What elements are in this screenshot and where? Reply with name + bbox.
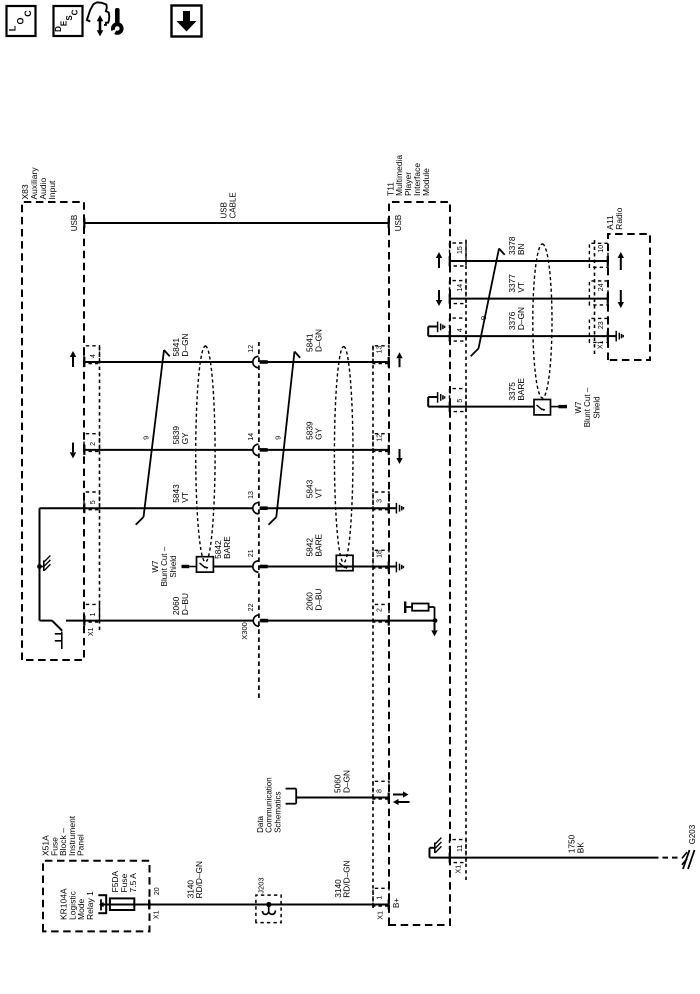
svg-text:D–BU: D–BU xyxy=(180,593,190,615)
svg-text:D–GN: D–GN xyxy=(342,770,352,793)
svg-text:12: 12 xyxy=(248,345,255,353)
svg-text:22: 22 xyxy=(248,603,255,611)
svg-text:2: 2 xyxy=(90,442,97,446)
svg-text:VT: VT xyxy=(180,492,190,503)
svg-text:VT: VT xyxy=(516,282,526,293)
svg-text:13: 13 xyxy=(377,346,384,354)
svg-text:X1: X1 xyxy=(455,865,462,874)
svg-text:USB: USB xyxy=(70,215,79,231)
svg-text:5: 5 xyxy=(90,500,97,504)
svg-text:W7: W7 xyxy=(574,401,583,414)
svg-text:1: 1 xyxy=(377,896,384,900)
svg-text:USB: USB xyxy=(394,215,403,231)
svg-text:10: 10 xyxy=(598,245,605,253)
svg-text:Panel: Panel xyxy=(76,834,86,856)
svg-text:20: 20 xyxy=(154,887,161,895)
svg-text:18: 18 xyxy=(377,550,384,558)
svg-text:3: 3 xyxy=(377,499,384,503)
svg-text:1: 1 xyxy=(90,612,97,616)
svg-text:X1: X1 xyxy=(377,911,384,920)
svg-text:Shield: Shield xyxy=(592,396,601,418)
svg-text:Relay 1: Relay 1 xyxy=(85,891,95,920)
svg-text:J203: J203 xyxy=(256,877,265,893)
svg-text:9: 9 xyxy=(273,436,282,440)
svg-text:13: 13 xyxy=(248,491,255,499)
svg-text:8: 8 xyxy=(377,789,384,793)
svg-text:D–GN: D–GN xyxy=(516,307,526,330)
svg-text:RD/D–GN: RD/D–GN xyxy=(342,860,352,897)
svg-text:9: 9 xyxy=(141,436,150,440)
svg-text:RD/D–GN: RD/D–GN xyxy=(194,861,204,898)
svg-text:Input: Input xyxy=(47,180,57,200)
svg-text:Radio: Radio xyxy=(614,207,624,229)
svg-text:BN: BN xyxy=(516,243,526,255)
svg-text:Blunt Cut –: Blunt Cut – xyxy=(583,387,592,427)
svg-text:Blunt Cut –: Blunt Cut – xyxy=(160,546,169,586)
svg-text:D–BU: D–BU xyxy=(313,588,323,610)
svg-text:Shield: Shield xyxy=(169,555,178,577)
svg-text:23: 23 xyxy=(598,321,605,329)
svg-text:2: 2 xyxy=(377,608,384,612)
svg-text:11: 11 xyxy=(457,845,464,852)
svg-text:X300: X300 xyxy=(240,622,249,640)
svg-text:14: 14 xyxy=(248,433,255,441)
svg-text:Module: Module xyxy=(421,168,431,196)
svg-text:G203: G203 xyxy=(688,824,697,844)
svg-text:21: 21 xyxy=(248,549,255,557)
svg-text:BARE: BARE xyxy=(313,533,323,556)
svg-text:VT: VT xyxy=(313,488,323,499)
svg-text:4: 4 xyxy=(90,354,97,358)
svg-text:GY: GY xyxy=(313,427,323,439)
svg-text:15: 15 xyxy=(457,246,464,254)
svg-text:B+: B+ xyxy=(392,898,401,908)
svg-text:BARE: BARE xyxy=(516,378,526,401)
svg-text:D–GN: D–GN xyxy=(180,333,190,356)
svg-text:Communication: Communication xyxy=(265,777,274,833)
svg-text:4: 4 xyxy=(457,328,464,332)
svg-text:24: 24 xyxy=(598,283,605,291)
svg-text:14: 14 xyxy=(457,284,464,292)
svg-text:BK: BK xyxy=(576,842,586,854)
svg-text:W7: W7 xyxy=(151,560,160,573)
svg-text:7.5 A: 7.5 A xyxy=(128,873,138,893)
svg-text:12: 12 xyxy=(377,434,384,442)
svg-text:9: 9 xyxy=(479,316,488,320)
svg-text:5: 5 xyxy=(457,399,464,403)
svg-text:X1: X1 xyxy=(154,910,161,919)
svg-text:X1: X1 xyxy=(597,340,604,349)
svg-text:Schematics: Schematics xyxy=(273,792,282,833)
svg-text:BARE: BARE xyxy=(222,536,232,559)
svg-text:D–GN: D–GN xyxy=(313,329,323,352)
svg-text:GY: GY xyxy=(180,432,190,444)
svg-text:X1: X1 xyxy=(88,627,95,636)
svg-text:CABLE: CABLE xyxy=(228,192,237,218)
svg-text:Data: Data xyxy=(256,815,265,832)
svg-text:USB: USB xyxy=(220,202,229,218)
